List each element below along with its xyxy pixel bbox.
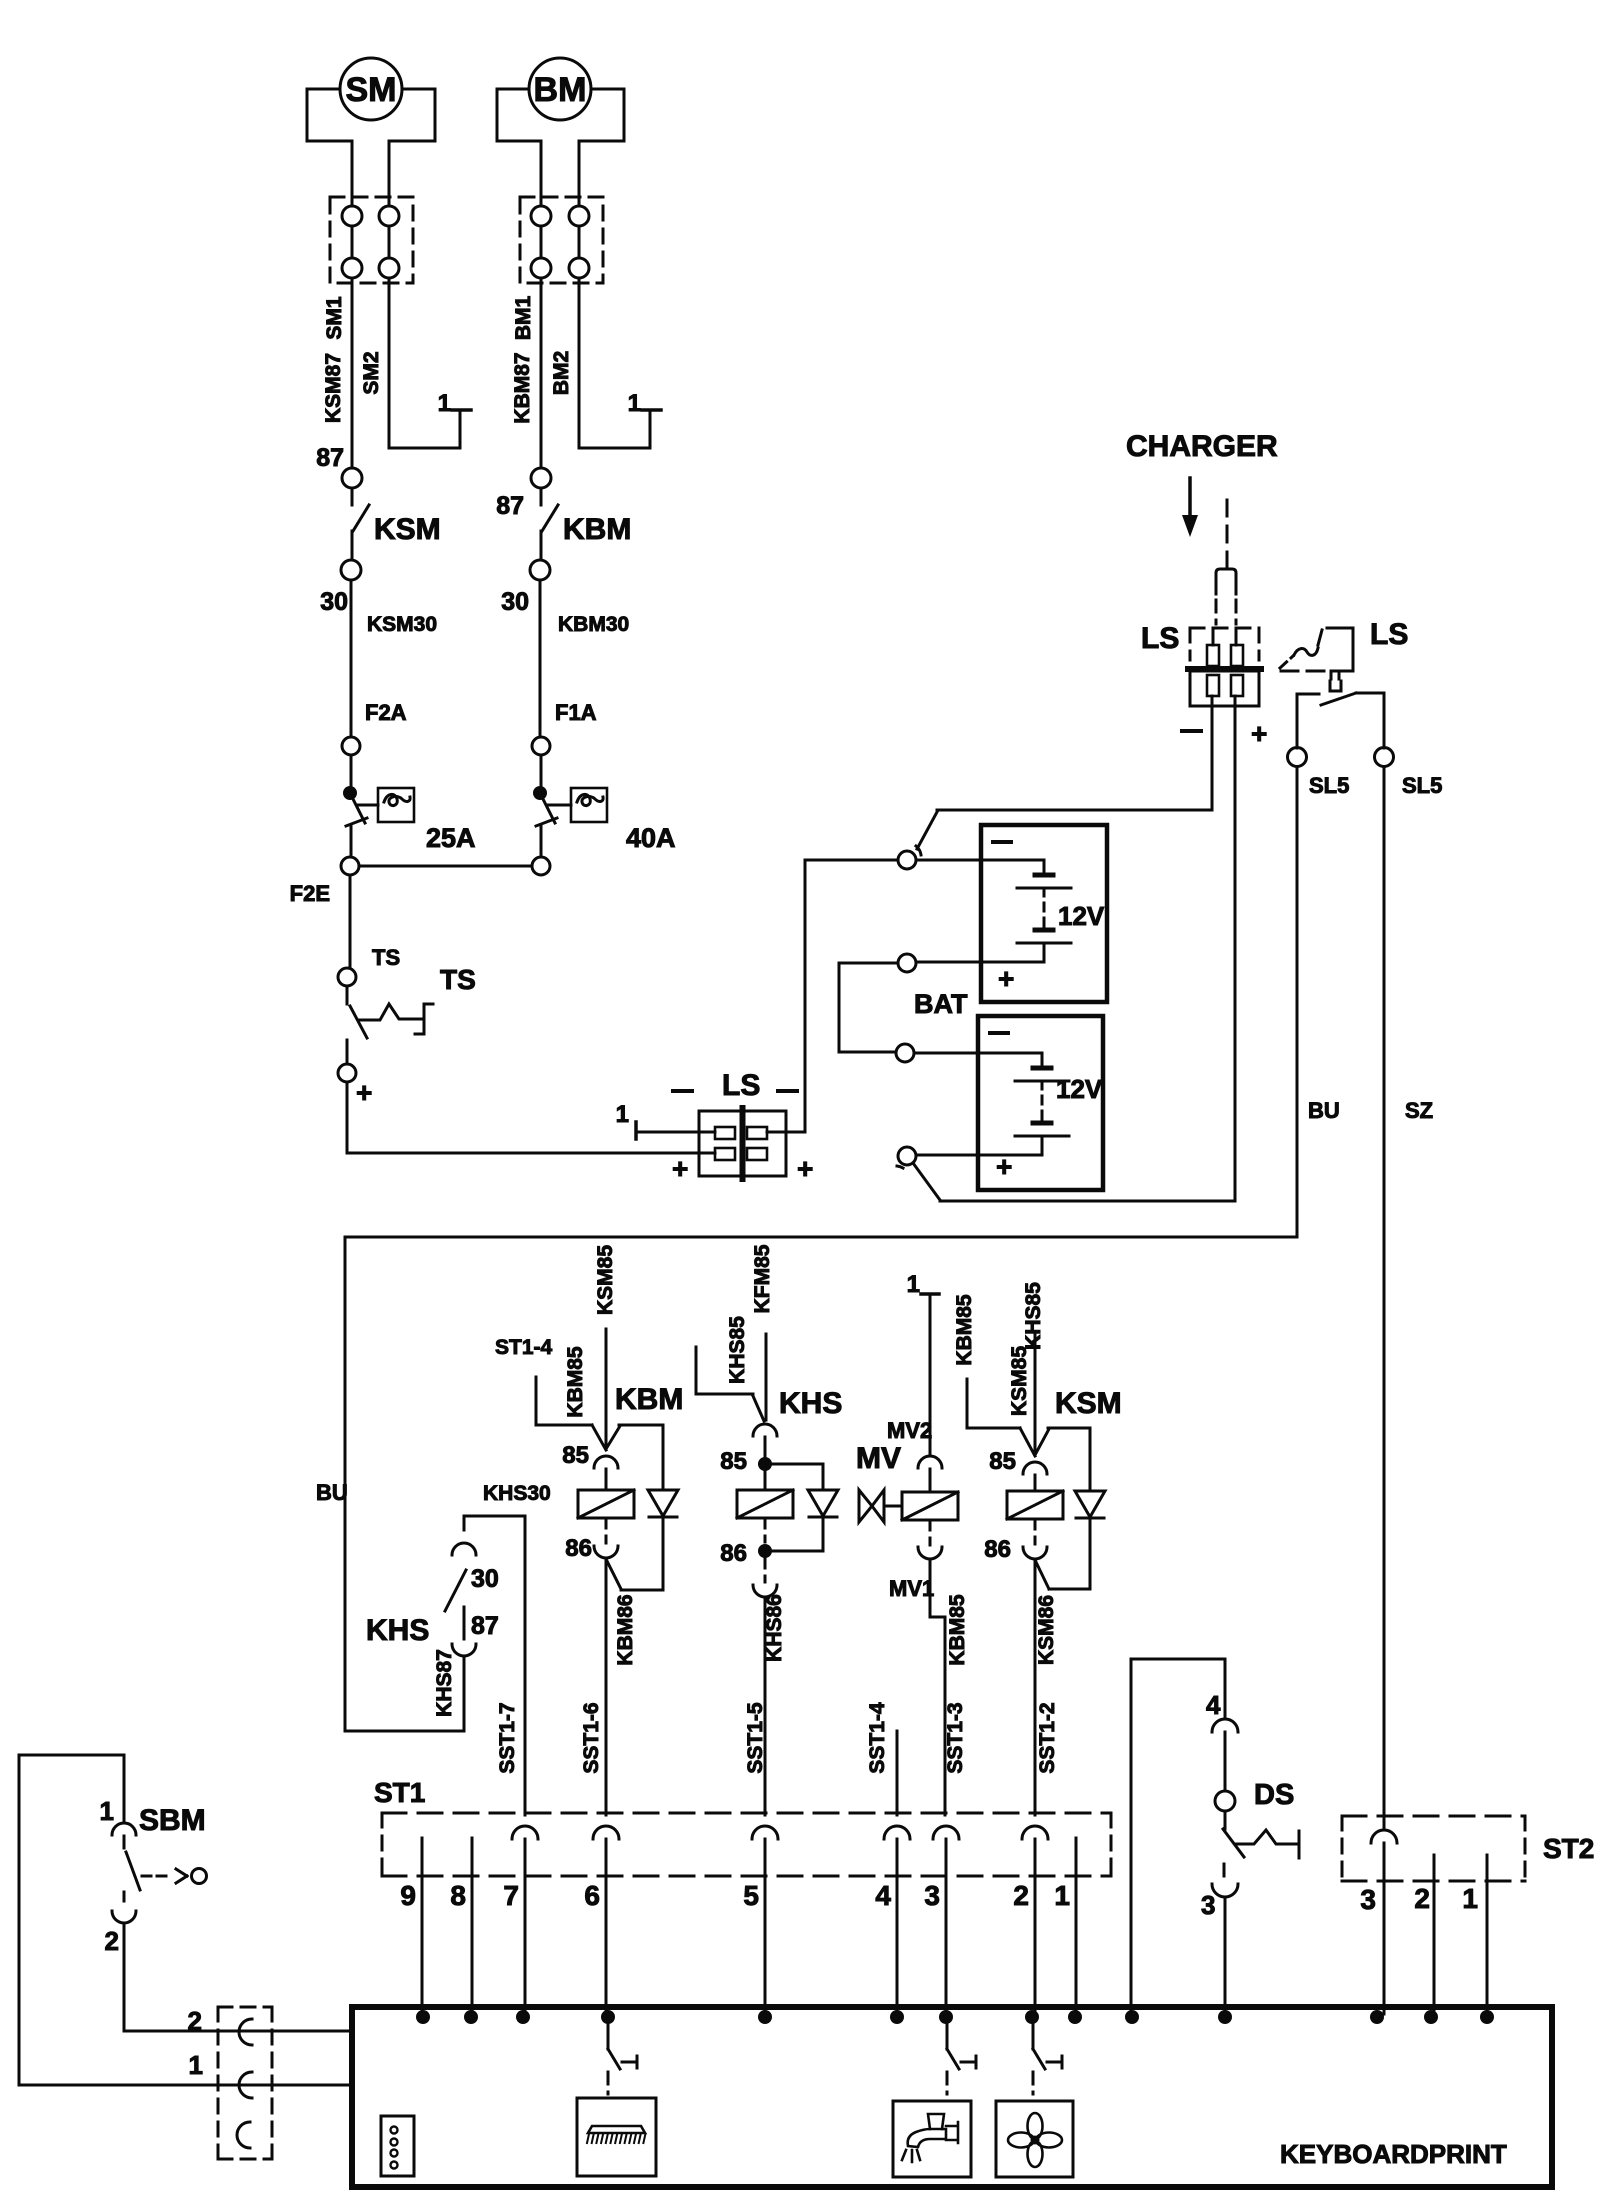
svg-text:KBM86: KBM86 [614, 1594, 637, 1665]
svg-text:86: 86 [720, 1540, 747, 1567]
battery BAT box 2 [978, 1016, 1103, 1190]
icon brush box [577, 2098, 656, 2176]
charger lead (dashed) [1226, 500, 1229, 569]
wire charger plus to battery [940, 706, 1235, 1201]
label SST1-7 [496, 1702, 519, 1773]
label KBM85 (pin3 wire) [946, 1594, 969, 1666]
svg-text:ST2: ST2 [1543, 1833, 1594, 1864]
svg-text:SL5: SL5 [1402, 773, 1442, 798]
battery 2 minus label [990, 1031, 1008, 1035]
svg-text:12V: 12V [1056, 1074, 1103, 1104]
svg-text:TS: TS [372, 945, 400, 970]
svg-text:7: 7 [503, 1880, 519, 1911]
relay KHS coil [720, 1424, 823, 1597]
svg-text:+: + [998, 963, 1014, 994]
label LS (boot) [1370, 618, 1408, 651]
fuse 40A breaker [533, 755, 676, 853]
node F2E [290, 857, 359, 906]
svg-text:LS: LS [1141, 622, 1179, 655]
connector LS (battery) [699, 1108, 786, 1179]
svg-text:3: 3 [1360, 1884, 1376, 1915]
connector ST1 pin 8 [450, 1838, 472, 2014]
wire SM2 to ground [389, 278, 460, 448]
svg-text:KBM85: KBM85 [946, 1594, 969, 1666]
label minus right [778, 1089, 797, 1093]
keyboard 4-pin header [381, 2116, 414, 2176]
wire DS loop [1131, 1659, 1225, 2014]
solenoid MV coil [902, 1456, 958, 1559]
switch KBM [541, 488, 631, 560]
svg-text:4: 4 [875, 1880, 891, 1911]
keyboard switch (water) [947, 2024, 976, 2094]
label KSM85 [594, 1245, 617, 1315]
node 30 (KSM) [320, 560, 361, 616]
svg-text:3: 3 [1201, 1890, 1215, 1920]
svg-text:ST1-4: ST1-4 [495, 1336, 553, 1359]
svg-text:8: 8 [450, 1880, 466, 1911]
connector pin DS bottom [1201, 1884, 1238, 1920]
connector ST2 (dashed box) [1342, 1816, 1525, 1881]
switch KHS [445, 1517, 476, 1656]
svg-text:ST1: ST1 [374, 1777, 425, 1808]
switch TS [347, 986, 433, 1038]
svg-text:40A: 40A [626, 823, 676, 853]
label KHS85 (KSM wire) [1022, 1282, 1045, 1350]
svg-text:BM2: BM2 [550, 351, 573, 395]
svg-text:F2A: F2A [365, 700, 407, 725]
svg-text:4: 4 [1206, 1690, 1221, 1720]
svg-text:SST1-7: SST1-7 [496, 1702, 519, 1773]
wire SST1-4 pin stub [896, 1731, 899, 1815]
label SM2 [360, 351, 383, 394]
svg-text:85: 85 [720, 1448, 747, 1475]
svg-text:KHS: KHS [779, 1387, 842, 1420]
battery 2 plus label [996, 1151, 1012, 1182]
wire batt1plus to batt2minus [839, 963, 898, 1052]
svg-text:9: 9 [400, 1880, 416, 1911]
label 2 (SBM connector) [188, 2006, 202, 2036]
keyboard switch (fan) [1033, 2024, 1062, 2094]
wire KSM30 [351, 580, 437, 737]
stub KBM85 (KSM) [967, 1379, 1035, 1456]
label 87 (KHS) [471, 1612, 499, 1640]
svg-text:87: 87 [496, 492, 524, 520]
motor SM [307, 58, 435, 141]
svg-text:SST1-6: SST1-6 [580, 1702, 603, 1773]
svg-text:KHS85: KHS85 [726, 1316, 749, 1384]
connector ST1 pin 4 [875, 1826, 910, 2014]
label KBM87 [511, 352, 534, 423]
motor BM [497, 58, 624, 141]
svg-text:KSM: KSM [374, 513, 441, 546]
svg-text:+: + [356, 1077, 372, 1108]
node battery1 plus terminal [898, 954, 916, 972]
fuse terminal F2A [342, 700, 407, 755]
svg-text:KBM30: KBM30 [558, 613, 629, 636]
svg-text:SST1-4: SST1-4 [866, 1702, 889, 1774]
switch KSM [352, 488, 441, 560]
icon fan box [996, 2101, 1073, 2177]
svg-text:+: + [1251, 718, 1267, 749]
connector SBM (dashed box) [218, 2007, 272, 2159]
wire BU left loop [345, 1237, 464, 1731]
svg-text:5: 5 [743, 1880, 759, 1911]
wire KSM86 [1035, 1561, 1058, 1815]
label KBM85 (MV wire) [953, 1294, 976, 1366]
wire fuse F2A out [350, 826, 353, 857]
svg-text:1: 1 [907, 1271, 920, 1298]
node TS [338, 945, 400, 986]
relay KBM coil [562, 1425, 663, 1589]
label ST1 [374, 1777, 425, 1808]
svg-text:30: 30 [501, 588, 529, 616]
label plus right [797, 1153, 813, 1184]
label SBM [139, 1804, 206, 1837]
label 30 (KHS) [471, 1565, 499, 1593]
wire BU drop [1297, 767, 1340, 1237]
svg-text:1: 1 [100, 1796, 114, 1826]
valve MV symbol [859, 1490, 902, 1522]
wire BM2 to ground [579, 278, 650, 448]
node battery2 minus terminal [896, 1044, 914, 1062]
label BM1 [512, 296, 535, 341]
svg-text:1: 1 [616, 1101, 629, 1128]
label ST2 [1543, 1833, 1594, 1864]
svg-text:KBM: KBM [615, 1383, 683, 1416]
svg-text:BM: BM [534, 71, 587, 109]
connector ST1 pin 5 [743, 1826, 778, 2014]
svg-text:SST1-5: SST1-5 [744, 1702, 767, 1774]
svg-text:KHS85: KHS85 [1022, 1282, 1045, 1350]
label KSM87 [322, 353, 345, 423]
svg-text:2: 2 [188, 2006, 202, 2036]
svg-text:+: + [797, 1153, 813, 1184]
label SST1-5 [744, 1702, 767, 1774]
connector BM plug (dashed) [520, 197, 603, 283]
label KBM (relay) [615, 1383, 683, 1416]
label 1 (SBM) [100, 1796, 114, 1826]
keyboard switch (brush) [608, 2024, 637, 2094]
label plus left [672, 1153, 688, 1184]
wire charger minus to battery [937, 706, 1212, 810]
connector ST1 pin 1 [1054, 1838, 1076, 2014]
label minus (charger) [1182, 729, 1201, 733]
svg-text:BU: BU [1308, 1098, 1340, 1123]
svg-text:MV2: MV2 [887, 1418, 932, 1443]
svg-text:LS: LS [722, 1069, 760, 1102]
connector ST1 (dashed box) [382, 1813, 1111, 1876]
charger arrow [1182, 478, 1198, 537]
svg-text:30: 30 [471, 1565, 499, 1593]
battery 1 minus label [993, 840, 1011, 844]
label SST1-4 [866, 1702, 889, 1774]
fuse terminal F1A [532, 700, 597, 755]
svg-text:KEYBOARDPRINT: KEYBOARDPRINT [1280, 2139, 1507, 2169]
svg-text:2: 2 [1013, 1880, 1029, 1911]
label 4 (DS) [1206, 1690, 1221, 1720]
label KBM85 (stub) [564, 1346, 587, 1418]
svg-text:KSM86: KSM86 [1035, 1595, 1058, 1665]
svg-text:12V: 12V [1058, 901, 1105, 931]
keyboard wire junction dots [416, 2010, 1494, 2024]
svg-text:SM2: SM2 [360, 351, 383, 394]
connector ST2 pin 1 [1462, 1855, 1487, 2014]
label BAT [914, 989, 968, 1019]
svg-text:KHS87: KHS87 [433, 1649, 456, 1717]
svg-text:1: 1 [1054, 1880, 1070, 1911]
svg-text:87: 87 [471, 1612, 499, 1640]
svg-text:86: 86 [984, 1536, 1011, 1563]
svg-text:6: 6 [584, 1880, 600, 1911]
svg-text:86: 86 [565, 1535, 592, 1562]
label KHS87 [433, 1649, 456, 1717]
battery BAT box 1 [981, 825, 1107, 1002]
charger plug housing [1216, 569, 1236, 624]
icon faucet box [893, 2101, 971, 2177]
wire KHS30 [464, 1482, 551, 1815]
wire KHS86 [763, 1594, 786, 1815]
wire DS to keyboard [1224, 1897, 1227, 2014]
wire KBM30 [540, 580, 629, 737]
connector LS charger (dashed box) [1188, 628, 1261, 669]
wire fuse tie [359, 865, 532, 868]
label minus left [673, 1089, 692, 1093]
svg-text:KBM85: KBM85 [953, 1294, 976, 1366]
svg-text:KBM: KBM [563, 513, 631, 546]
label LS (charger) [1141, 622, 1179, 655]
svg-text:KSM30: KSM30 [367, 613, 437, 636]
node SL5 right [1375, 748, 1443, 799]
svg-text:KHS: KHS [366, 1614, 429, 1647]
label DS [1254, 1779, 1294, 1811]
battery 1 cells [916, 860, 1071, 962]
label KHS (relay) [779, 1387, 842, 1420]
svg-text:KSM85: KSM85 [594, 1245, 617, 1315]
stub KBM85 [536, 1377, 606, 1450]
fuse 25A breaker [343, 755, 476, 853]
label BM2 [550, 351, 573, 395]
label MV [856, 1442, 901, 1475]
connector SBM pin arcs [237, 2019, 252, 2148]
wire SM1 to 87 [351, 278, 354, 468]
battery 2 cells [914, 1053, 1069, 1155]
node F1A out [532, 857, 550, 875]
label 12V (battery2) [1056, 1074, 1103, 1104]
svg-text:MV1: MV1 [889, 1576, 934, 1601]
svg-text:SST1-2: SST1-2 [1036, 1702, 1059, 1773]
label KSM85 (stub) [1008, 1346, 1031, 1416]
diode KHS [808, 1490, 838, 1551]
wire LS to batt1 minus [767, 860, 898, 1132]
label SM1 [323, 296, 346, 340]
diode KSM [1049, 1428, 1105, 1589]
wire MV1 [889, 1559, 945, 1815]
diode KBM [621, 1425, 678, 1590]
switch SBM [105, 1823, 207, 1956]
svg-text:SM1: SM1 [323, 296, 346, 340]
label SST1-2 [1036, 1702, 1059, 1773]
svg-text:LS: LS [1370, 618, 1408, 651]
svg-text:BU: BU [316, 1480, 348, 1505]
svg-text:CHARGER: CHARGER [1126, 430, 1278, 463]
label 12V (battery1) [1058, 901, 1105, 931]
connector SM plug (dashed) [330, 197, 413, 283]
connector LS charger (socket box) [1190, 671, 1259, 706]
wire KSM85 feed [605, 1329, 608, 1449]
node battery2 plus terminal [897, 1147, 940, 1200]
svg-text:1: 1 [189, 2050, 203, 2080]
label BU (left) [316, 1480, 348, 1505]
ground 1 stub (MV) [907, 1271, 939, 1298]
wire DS pin3 [1223, 1864, 1226, 1884]
svg-text:85: 85 [562, 1442, 589, 1469]
svg-text:1: 1 [438, 390, 451, 417]
label SST1-6 [580, 1702, 603, 1773]
node 87 (KSM) [316, 444, 362, 488]
svg-text:KBM87: KBM87 [511, 352, 534, 423]
relay KSM coil [984, 1428, 1090, 1589]
svg-text:BM1: BM1 [512, 296, 535, 341]
svg-text:KHS86: KHS86 [763, 1594, 786, 1662]
node 87 (KBM) [496, 468, 551, 520]
label TS [440, 964, 476, 995]
wire SM motor to connector [352, 141, 389, 206]
svg-text:BAT: BAT [914, 989, 968, 1019]
svg-text:SZ: SZ [1405, 1098, 1433, 1123]
node SL5 left [1288, 748, 1350, 799]
svg-text:SST1-3: SST1-3 [944, 1702, 967, 1773]
switch LS (charge interlock) [1297, 693, 1384, 748]
keyboardprint box [352, 2007, 1552, 2187]
connector ST1 pin 2 [1013, 1826, 1048, 2014]
stub KHS85 [696, 1347, 764, 1421]
svg-text:SBM: SBM [139, 1804, 206, 1837]
connector ST1 pin 6 [584, 1826, 619, 2014]
label 1 (SBM connector) [189, 2050, 203, 2080]
wire SBM loop [19, 1755, 349, 2085]
ground 1 stub at LS [616, 1101, 715, 1139]
symbol LS boot [1280, 628, 1353, 691]
svg-text:KBM85: KBM85 [564, 1346, 587, 1418]
label KFM85 [751, 1244, 774, 1313]
wire MV2 [887, 1294, 932, 1456]
svg-text:3: 3 [924, 1880, 940, 1911]
wire F2E to TS [349, 875, 352, 968]
svg-text:DS: DS [1254, 1779, 1294, 1811]
svg-text:TS: TS [440, 964, 476, 995]
label KSM (relay) [1055, 1387, 1122, 1420]
wire KFM85 feed [765, 1334, 768, 1420]
battery 1 plus label [998, 963, 1014, 994]
wire BM motor to connector [541, 141, 579, 206]
label KHS [366, 1614, 429, 1647]
svg-text:25A: 25A [426, 823, 476, 853]
connector ST2 pin 3 [1360, 1830, 1397, 2014]
switch DS thermal [1223, 1811, 1299, 1858]
ground 1 (BM) [628, 390, 661, 417]
wire BM1 to 87 [540, 278, 543, 468]
connector ST2 pin 2 [1414, 1855, 1434, 2014]
label KEYBOARDPRINT [1280, 2139, 1507, 2169]
svg-text:F1A: F1A [555, 700, 597, 725]
connector ST1 pin 7 [503, 1826, 538, 2014]
node 30 (KBM) [501, 560, 550, 616]
wire SZ drop [1384, 767, 1433, 1830]
svg-text:1: 1 [628, 390, 641, 417]
label SST1-3 [944, 1702, 967, 1773]
wire TS out [346, 1040, 349, 1064]
svg-text:30: 30 [320, 588, 348, 616]
label LS (battery connector) [722, 1069, 760, 1102]
wire fuse F1A out [540, 826, 543, 857]
label ST1-4 [495, 1336, 553, 1359]
svg-text:+: + [672, 1153, 688, 1184]
connector pin DS top [1212, 1719, 1238, 1732]
svg-text:85: 85 [989, 1448, 1016, 1475]
wire DS pin4 [1224, 1732, 1227, 1791]
ground 1 (SM) [438, 390, 471, 417]
svg-text:SM: SM [346, 71, 397, 109]
svg-text:KFM85: KFM85 [751, 1244, 774, 1313]
svg-text:87: 87 [316, 444, 344, 472]
wire KHS85 feed [1034, 1334, 1037, 1455]
svg-text:2: 2 [105, 1926, 119, 1956]
wire plus to LS [347, 1082, 715, 1153]
svg-text:SL5: SL5 [1309, 773, 1349, 798]
node battery1 minus terminal [898, 812, 937, 869]
svg-text:KSM85: KSM85 [1008, 1346, 1031, 1416]
svg-text:KSM: KSM [1055, 1387, 1122, 1420]
label KHS85 (stub) [726, 1316, 749, 1384]
svg-text:F2E: F2E [290, 881, 330, 906]
wire KBM86 [606, 1560, 637, 1815]
label CHARGER [1126, 430, 1278, 463]
wire SBM out [124, 1923, 349, 2031]
label plus (charger) [1251, 718, 1267, 749]
node + (machine plus) [338, 1064, 372, 1108]
node DS [1215, 1791, 1235, 1811]
svg-text:1: 1 [1462, 1883, 1478, 1914]
svg-text:MV: MV [856, 1442, 901, 1475]
wire BU horizontal [345, 1236, 1297, 1239]
svg-text:2: 2 [1414, 1883, 1430, 1914]
connector ST1 pin 9 [400, 1838, 422, 2014]
svg-text:KHS30: KHS30 [483, 1482, 551, 1505]
svg-text:KSM87: KSM87 [322, 353, 345, 423]
connector ST1 pin 3 [924, 1826, 959, 2014]
